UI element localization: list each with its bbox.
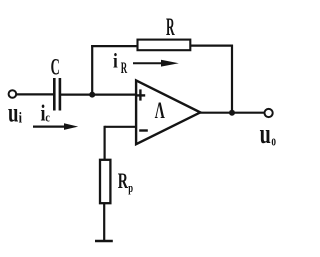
wire: feedback drop to output node [231,45,233,113]
wire: input terminal to capacitor [16,93,53,95]
arrow i_c [33,123,78,130]
wire: capacitor to op-amp noninverting input [61,93,136,95]
svg-text:i: i [113,49,118,73]
capacitor C [54,78,60,111]
op-amp U1 triangle [136,80,200,144]
ground [95,240,113,243]
svg-text:p: p [128,180,133,195]
svg-text:o: o [271,133,276,149]
wire: down to resistor Rp [103,126,105,160]
wire: op-amp output to terminal [200,112,265,114]
resistor Rp [100,160,110,203]
svg-text:i: i [19,110,22,126]
input terminal [9,90,17,98]
svg-text:u: u [8,97,19,127]
wire: inverting input stub [105,126,136,128]
svg-text:Λ: Λ [155,98,165,123]
node junction (input/feedback) [89,92,95,98]
svg-text:C: C [51,54,60,79]
wire: resistor R to right corner [190,44,233,46]
wire: top run to resistor R [91,45,137,47]
arrow i_R [133,60,179,67]
wire: feedback riser up [91,45,93,95]
resistor R [138,40,191,51]
node junction (output/feedback) [229,110,235,116]
svg-text:R: R [121,60,128,77]
svg-text:u: u [260,118,271,150]
op-amp minus sign [139,129,148,131]
op-amp plus sign [136,89,146,100]
output terminal [265,109,273,117]
wire: Rp to ground [103,203,105,241]
svg-text:R: R [118,168,129,193]
svg-text:c: c [45,109,50,124]
svg-text:R: R [166,14,175,41]
